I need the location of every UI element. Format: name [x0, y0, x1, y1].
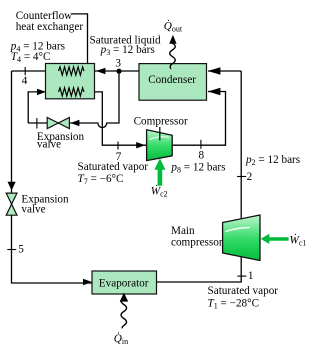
svg-text:valve: valve — [21, 203, 45, 215]
svg-text:2: 2 — [247, 171, 253, 183]
svg-text:Condenser: Condenser — [148, 74, 196, 86]
svg-text:valve: valve — [37, 139, 61, 151]
svg-text:8: 8 — [199, 150, 205, 162]
svg-text:Saturated vapor: Saturated vapor — [208, 285, 279, 297]
svg-text:compressor: compressor — [171, 237, 223, 249]
svg-text:Counterflow: Counterflow — [16, 10, 73, 22]
svg-text:heat exchanger: heat exchanger — [16, 21, 84, 33]
svg-text:T4 = 4°C: T4 = 4°C — [11, 51, 51, 64]
svg-text:5: 5 — [18, 244, 24, 256]
svg-text:Main: Main — [171, 225, 195, 237]
svg-text:4: 4 — [22, 75, 28, 87]
svg-text:1: 1 — [248, 270, 254, 282]
svg-text:Compressor: Compressor — [134, 116, 188, 128]
svg-text:Evaporator: Evaporator — [99, 277, 149, 289]
svg-text:3: 3 — [115, 58, 121, 70]
svg-text:Saturated vapor: Saturated vapor — [78, 161, 149, 173]
